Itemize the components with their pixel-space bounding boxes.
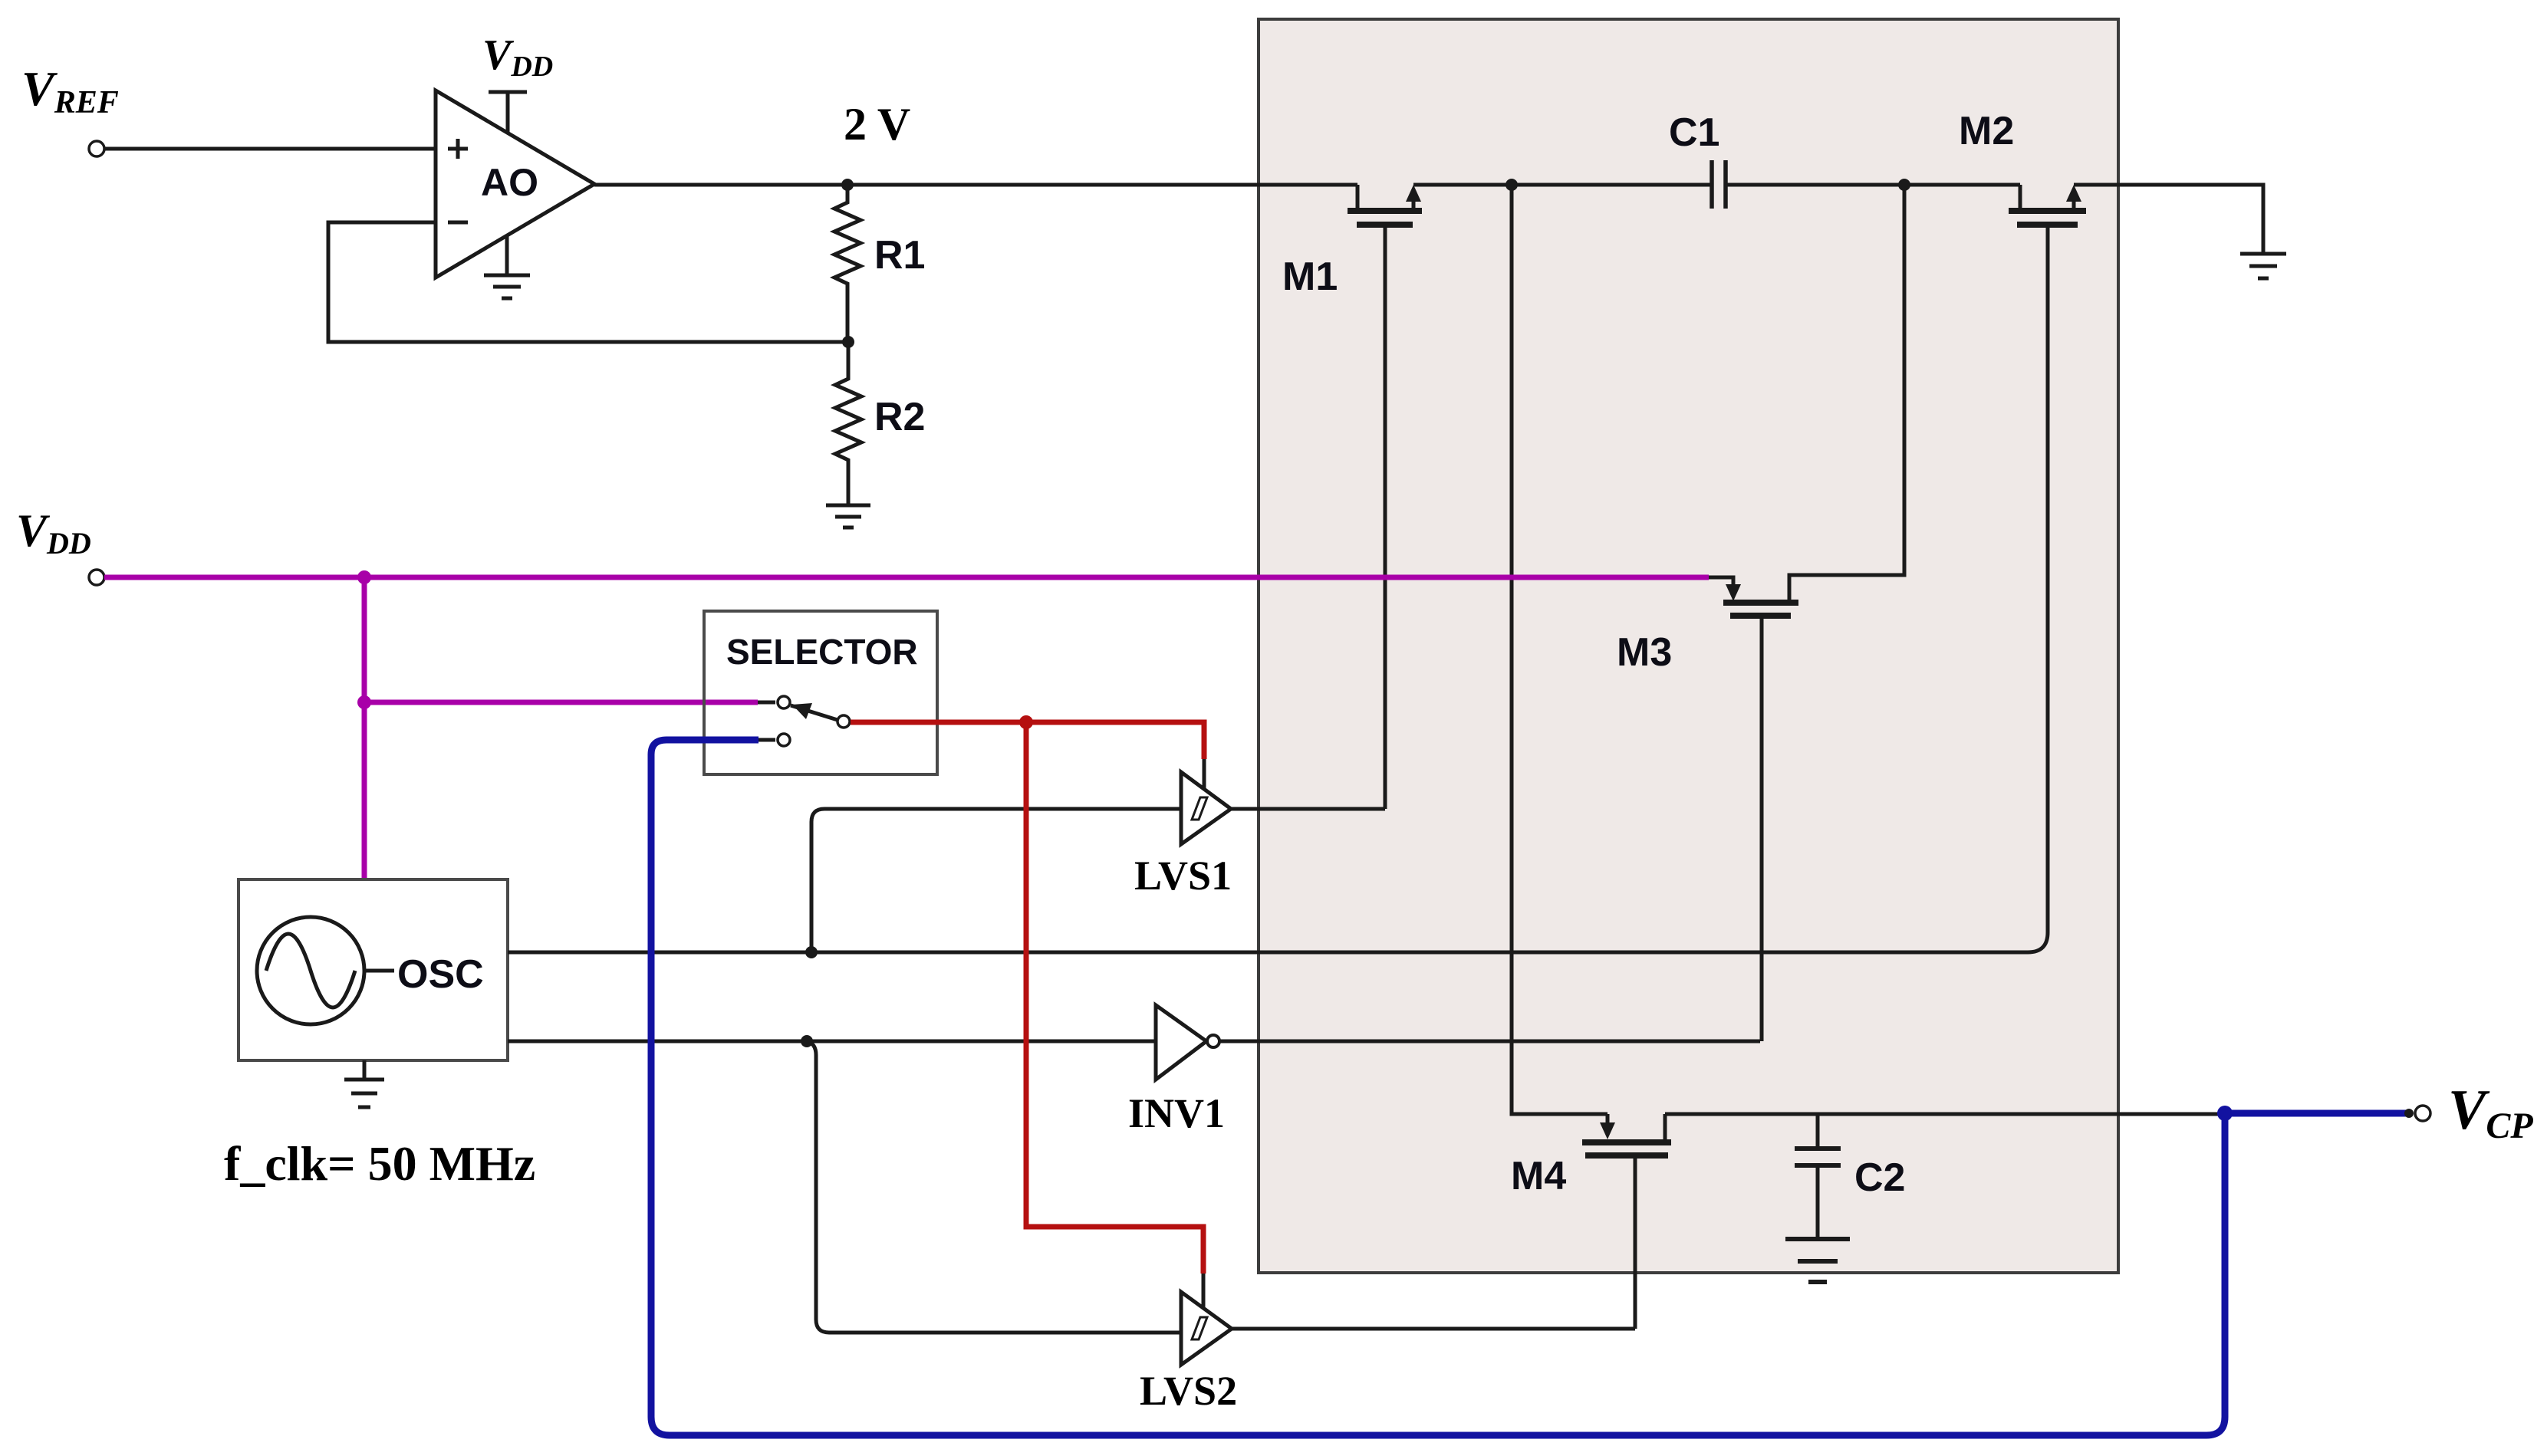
- wire op-amp output rail: [594, 183, 1357, 187]
- svg-text:M3: M3: [1617, 630, 1672, 675]
- svg-text:SELECTOR: SELECTOR: [726, 632, 918, 672]
- label SELECTOR: [726, 632, 918, 672]
- selector box: [704, 611, 937, 774]
- label VREF: [21, 61, 119, 120]
- label OSC: [397, 952, 484, 997]
- transistor M1: [1348, 185, 1422, 809]
- level shifter LVS2: [1181, 1274, 1232, 1365]
- label INV1: [1128, 1090, 1225, 1136]
- node 2V junction: [841, 179, 854, 191]
- node VDD junction 1: [357, 570, 371, 584]
- label C1: [1669, 110, 1719, 155]
- label M3: [1617, 630, 1672, 675]
- wire rail M1 to C1: [1413, 183, 1712, 187]
- capacitor C2: [1795, 1114, 1841, 1239]
- node OSC1/LVS1 junction: [805, 946, 818, 958]
- switch contact A: [758, 696, 790, 708]
- label 2 V: [844, 99, 910, 150]
- label AO: [481, 161, 538, 204]
- op-amp U1 (AO): [436, 90, 594, 278]
- svg-text:R2: R2: [874, 395, 925, 439]
- node VDD junction 2: [357, 695, 371, 709]
- capacitor C1: [1712, 160, 1726, 209]
- label LVS1: [1134, 853, 1232, 899]
- wire OSC output 1 to M2 gate: [508, 228, 2048, 952]
- switch common contact: [837, 715, 850, 728]
- level shifter LVS1: [1181, 756, 1231, 844]
- wire LVS2 input dropper: [807, 1041, 1181, 1333]
- inverter INV1: [1156, 1005, 1219, 1080]
- wire red branch to LVS2 supply (red): [1026, 722, 1203, 1274]
- svg-text:LVS1: LVS1: [1134, 853, 1232, 899]
- wire M3 source to rail: [1789, 185, 1904, 603]
- transistor M4: [1582, 1114, 1671, 1329]
- wire rail M2 to ground: [2074, 185, 2263, 254]
- label M1: [1282, 255, 1338, 299]
- power VDD at op-amp: [489, 92, 527, 133]
- label M4: [1511, 1154, 1566, 1198]
- wire INV1 output to M3 gate: [1219, 1040, 1760, 1044]
- transistor M3: [1709, 577, 1798, 1041]
- node blue junction: [2217, 1106, 2233, 1121]
- svg-text:INV1: INV1: [1128, 1090, 1225, 1136]
- wire VDD drop to OSC (magenta): [362, 577, 367, 879]
- label VDD (op-amp): [482, 31, 553, 83]
- node rail/M3 junction: [1898, 179, 1910, 191]
- node VREF terminal: [89, 141, 104, 156]
- svg-text:AO: AO: [481, 161, 538, 204]
- node rail/M4 drain junction: [1505, 179, 1518, 191]
- wire VCP net (blue): [651, 740, 2408, 1435]
- ground (op-amp): [484, 235, 530, 298]
- svg-text:M1: M1: [1282, 255, 1338, 299]
- charge pump shaded block: [1259, 19, 2118, 1273]
- wire feedback op-amp: [328, 222, 848, 342]
- switch arm: [791, 703, 837, 720]
- resistor R1: [834, 185, 861, 342]
- label M2: [1959, 109, 2014, 153]
- node VCP terminal: [2404, 1106, 2430, 1121]
- label R1: [874, 233, 925, 278]
- source symbol (sine): [257, 917, 394, 1024]
- svg-text:OSC: OSC: [397, 952, 484, 997]
- svg-text:C2: C2: [1854, 1155, 1905, 1200]
- svg-text:2 V: 2 V: [844, 99, 910, 150]
- svg-text:R1: R1: [874, 233, 925, 278]
- svg-text:LVS2: LVS2: [1140, 1368, 1237, 1414]
- ground (C2): [1785, 1239, 1850, 1282]
- label VCP: [2448, 1079, 2533, 1146]
- wire LVS2 output to M4 gate: [1232, 1327, 1635, 1331]
- label VDD (left): [16, 505, 91, 560]
- wire LVS1 input riser: [811, 809, 1181, 952]
- wire rail C1 to M2: [1726, 183, 2020, 187]
- wire M4 source to VCP: [1665, 1113, 2225, 1116]
- wire VREF to op-amp: [104, 147, 436, 151]
- node R1/R2 junction: [842, 336, 854, 348]
- label R2: [874, 395, 925, 439]
- resistor R2: [835, 342, 861, 505]
- wire selector to LVS1 supply (red): [851, 722, 1204, 759]
- label C2: [1854, 1155, 1905, 1200]
- node OSC2/LVS2 junction: [801, 1035, 813, 1047]
- node red junction: [1019, 715, 1033, 729]
- label LVS2: [1140, 1368, 1237, 1414]
- ground (top right): [2240, 254, 2286, 278]
- wire VDD to selector (magenta): [364, 700, 758, 705]
- wire M4 drain vertical from rail: [1512, 185, 1608, 1114]
- ground (OSC): [344, 1060, 384, 1107]
- ground (R2): [826, 505, 870, 528]
- wire VDD rail (magenta): [104, 575, 1709, 580]
- svg-text:C1: C1: [1669, 110, 1719, 155]
- transistor M2: [2009, 185, 2086, 932]
- svg-text:M4: M4: [1511, 1154, 1566, 1198]
- label f_clk: [224, 1136, 535, 1191]
- svg-text:M2: M2: [1959, 109, 2014, 153]
- svg-text:f_clk= 50 MHz: f_clk= 50 MHz: [224, 1136, 535, 1191]
- wire OSC output 2 to INV1: [508, 1040, 1156, 1044]
- wire LVS1 output to M1 gate: [1231, 807, 1385, 811]
- switch contact B: [759, 734, 790, 746]
- node VDD terminal: [89, 570, 104, 585]
- oscillator box OSC: [239, 879, 508, 1060]
